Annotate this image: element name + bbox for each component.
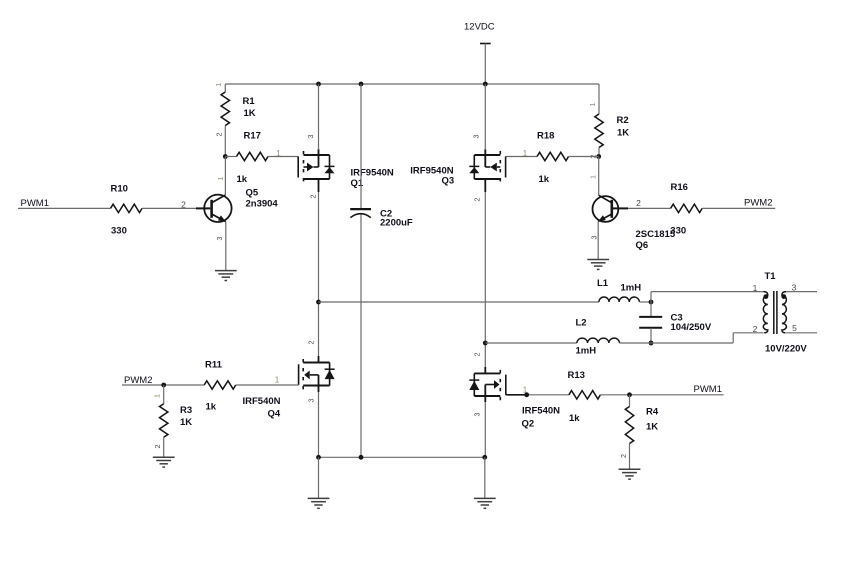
- capacitor C2: [350, 209, 371, 218]
- pin 3 of Q4: [307, 399, 316, 403]
- label R10 value 330: [111, 226, 127, 237]
- pin 2 of Q3: [473, 198, 482, 202]
- wire R3 bottom lead: [163, 437, 165, 457]
- pin 1 of R1: [214, 83, 223, 87]
- node PWM2 label (left): [124, 375, 153, 386]
- label T1: [765, 271, 777, 282]
- svg-text:12VDC: 12VDC: [464, 22, 495, 33]
- wire PWM2 net (lower left): [122, 384, 204, 386]
- label R18: [537, 131, 554, 142]
- svg-text:330: 330: [670, 225, 686, 236]
- svg-text:2: 2: [309, 195, 318, 199]
- svg-text:2: 2: [753, 324, 758, 334]
- svg-text:3: 3: [472, 135, 481, 139]
- wire L2 row to T1 pin2: [620, 333, 764, 343]
- label R17: [244, 131, 261, 142]
- label R1 value 1K: [244, 108, 256, 119]
- label R17 value 1k: [237, 174, 248, 185]
- junction output node A: [316, 300, 321, 305]
- label L2 value 1mH: [576, 346, 597, 357]
- svg-text:3: 3: [215, 237, 224, 241]
- transformer T1 secondary winding: [782, 292, 787, 333]
- label R13: [568, 370, 585, 381]
- svg-text:PWM1: PWM1: [21, 198, 50, 209]
- svg-text:2: 2: [619, 454, 628, 458]
- wire R16 to PWM2: [702, 207, 775, 209]
- label C2 value 2200uF: [380, 218, 413, 229]
- pin 1 of R11: [275, 375, 280, 385]
- svg-text:Q1: Q1: [351, 178, 364, 189]
- pin 1 of R17: [276, 148, 281, 158]
- wire Q1 drain to Q4 drain: [318, 192, 320, 356]
- pin 2 of R1: [214, 133, 223, 137]
- pin 3 of Q5: [215, 237, 224, 241]
- label IRF9540N (Q3): [410, 166, 453, 177]
- label R18 value 1k: [539, 174, 550, 185]
- svg-text:1K: 1K: [180, 417, 192, 428]
- wire Q5 collector to junction: [224, 157, 226, 196]
- node PWM1 label (left): [21, 198, 50, 209]
- svg-text:R3: R3: [180, 405, 192, 416]
- svg-text:1: 1: [276, 148, 281, 158]
- label R1: [243, 96, 256, 107]
- label R11 value 1k: [206, 402, 217, 413]
- junction 12VDC-rail: [483, 82, 488, 87]
- transistor Q3 (IRF9540N P-MOSFET): [469, 149, 505, 192]
- svg-text:1K: 1K: [646, 422, 658, 433]
- resistor R11: [204, 381, 236, 389]
- resistor R3: [160, 404, 168, 438]
- wire R17 to Q1 gate: [268, 156, 298, 158]
- junction ground rail right: [482, 455, 487, 460]
- label R16 value 330: [670, 225, 686, 236]
- svg-text:1: 1: [589, 175, 598, 179]
- pin 3 of Q2: [473, 413, 482, 417]
- wire R10 to Q5 base: [142, 207, 196, 209]
- junction rail-C2 column: [359, 82, 364, 87]
- svg-text:L2: L2: [576, 318, 587, 329]
- svg-text:2: 2: [307, 341, 316, 345]
- svg-text:1: 1: [523, 148, 528, 158]
- svg-text:Q4: Q4: [268, 409, 281, 420]
- svg-text:R1: R1: [243, 96, 256, 107]
- pin 2 of Q4: [307, 341, 316, 345]
- svg-text:T1: T1: [765, 271, 777, 282]
- resistor R4: [625, 407, 633, 444]
- svg-text:R16: R16: [671, 182, 688, 193]
- junction R2-R18-Q6 collector: [596, 154, 601, 159]
- svg-text:1k: 1k: [569, 413, 580, 424]
- svg-text:R11: R11: [205, 360, 223, 371]
- ground below Q2 column: [474, 498, 496, 508]
- junction ground rail C2: [359, 455, 364, 460]
- svg-text:Q2: Q2: [522, 419, 535, 430]
- ground below R3: [153, 457, 175, 467]
- pin 2 of Q6: [636, 198, 641, 208]
- transistor Q4 (IRF540N N-MOSFET): [299, 356, 335, 392]
- transformer T1 primary winding: [763, 292, 768, 333]
- svg-text:1: 1: [152, 394, 161, 398]
- wire Q5 emitter down: [225, 222, 227, 271]
- resistor R13: [569, 391, 600, 399]
- resistor R1 vertical leads: [224, 84, 226, 157]
- label R4: [646, 407, 659, 418]
- junction ground rail left: [316, 455, 321, 460]
- label R13 value 1k: [569, 413, 580, 424]
- svg-text:1K: 1K: [244, 108, 256, 119]
- transformer T1 secondary phase dot: [781, 294, 786, 299]
- label R2 value 1K: [617, 128, 629, 139]
- svg-text:2: 2: [473, 198, 482, 202]
- svg-text:PWM2: PWM2: [124, 375, 153, 386]
- svg-text:5: 5: [792, 323, 797, 333]
- label R10: [111, 184, 128, 195]
- node 12VDC label: [464, 22, 495, 33]
- wire R18 right lead: [569, 156, 599, 158]
- label Q4: [268, 409, 281, 420]
- pin 1 of R18: [523, 148, 528, 158]
- label R3: [180, 405, 192, 416]
- wire 12VDC power rail (top, +12V): [225, 83, 599, 85]
- ground below R4: [619, 469, 641, 479]
- wire Q4 source down: [318, 392, 320, 457]
- resistor R16: [671, 204, 702, 212]
- pin 1 of R3: [152, 394, 161, 398]
- resistor R10: [111, 204, 143, 212]
- node PWM2 label (right): [744, 198, 773, 209]
- svg-text:IRF540N: IRF540N: [522, 406, 560, 417]
- label Q2: [522, 419, 535, 430]
- svg-text:3: 3: [590, 236, 599, 240]
- svg-text:1: 1: [214, 83, 223, 87]
- wire Q6 base to R16: [628, 207, 671, 209]
- label C3: [671, 313, 683, 324]
- junction PWM2-R3: [161, 383, 166, 388]
- label R11: [205, 360, 223, 371]
- pin 2 of Q5: [181, 200, 186, 210]
- svg-text:2: 2: [153, 445, 162, 449]
- pin 1 of Q6: [589, 175, 598, 179]
- pin 2 of R2: [589, 155, 598, 159]
- wire R11 to Q4 gate: [236, 384, 299, 386]
- svg-text:R10: R10: [111, 184, 128, 195]
- resistor R18: [537, 152, 568, 160]
- svg-text:1k: 1k: [206, 402, 217, 413]
- label 2SC1815 (Q6): [636, 229, 676, 240]
- pin 1 of R2: [588, 103, 597, 107]
- node PWM1 label (right): [694, 384, 723, 395]
- label T1 value 10V/220V: [765, 344, 807, 355]
- svg-text:PWM2: PWM2: [744, 198, 773, 209]
- svg-text:104/250V: 104/250V: [671, 322, 712, 333]
- label Q5: [246, 188, 259, 199]
- pin 3 of Q6: [590, 236, 599, 240]
- label Q6: [636, 240, 649, 251]
- pin 2 of R4: [619, 454, 628, 458]
- svg-text:1: 1: [753, 283, 758, 293]
- label L2: [576, 318, 587, 329]
- pin 2 of R3: [153, 445, 162, 449]
- label R16: [671, 182, 688, 193]
- wire Q3 gate to R18: [506, 156, 537, 158]
- power symbol 12VDC: [480, 44, 491, 85]
- wire R17 left lead: [225, 156, 236, 158]
- junction rail-Q1 drain column: [316, 82, 321, 87]
- wire Q6 emitter down: [597, 221, 599, 259]
- svg-text:IRF9540N: IRF9540N: [351, 168, 394, 179]
- pin 1 of Q5: [216, 177, 225, 181]
- wire output row to L2: [485, 342, 577, 344]
- junction C3-L2 row: [649, 341, 654, 346]
- svg-text:10V/220V: 10V/220V: [765, 344, 807, 355]
- svg-text:R17: R17: [244, 131, 261, 142]
- svg-text:1: 1: [588, 103, 597, 107]
- junction Q2 gate node: [524, 392, 529, 397]
- svg-text:3: 3: [306, 135, 315, 139]
- svg-text:1mH: 1mH: [576, 346, 597, 357]
- wire ground stem right: [484, 457, 486, 498]
- pin 2 of Q2: [473, 353, 482, 357]
- pin 3 of Q3: [472, 135, 481, 139]
- svg-text:PWM1: PWM1: [694, 384, 723, 395]
- svg-text:2: 2: [473, 353, 482, 357]
- label C2: [380, 209, 392, 220]
- wire T1 pin5 output: [786, 332, 817, 334]
- svg-text:Q6: Q6: [636, 240, 649, 251]
- pin 2 of Q1: [309, 195, 318, 199]
- svg-text:1mH: 1mH: [621, 283, 642, 294]
- wire Q6 collector to junction: [598, 157, 600, 196]
- pin 1 of T1: [753, 283, 758, 293]
- label C3 value 104/250V: [671, 322, 712, 333]
- wire R4 top lead: [629, 395, 631, 407]
- svg-text:1k: 1k: [237, 174, 248, 185]
- transformer T1 primary phase dot: [764, 294, 769, 299]
- transformer T1 core: [774, 291, 777, 334]
- svg-text:2200uF: 2200uF: [380, 218, 413, 229]
- resistor R17: [237, 152, 269, 160]
- svg-text:R18: R18: [537, 131, 554, 142]
- wire R13 to PWM1: [600, 394, 723, 396]
- wire R4 bottom lead: [629, 444, 631, 470]
- svg-text:2: 2: [181, 200, 186, 210]
- wire T1 pin3 output: [786, 291, 817, 293]
- svg-text:R4: R4: [646, 407, 659, 418]
- inductor L1: [599, 297, 639, 302]
- wire Q2 source down: [484, 402, 486, 457]
- wire Q2 gate to R13: [506, 394, 569, 396]
- pin 1 of Q2: [523, 385, 528, 395]
- transistor Q1 (IRF9540N P-MOSFET): [298, 149, 334, 192]
- svg-text:1: 1: [216, 177, 225, 181]
- ground below Q6: [587, 260, 609, 270]
- wire Q3 drain to Q2 drain: [484, 192, 486, 367]
- label Q1: [351, 178, 364, 189]
- wire output row to L1: [319, 301, 599, 303]
- label IRF9540N (Q1): [351, 168, 394, 179]
- wire ground stem left: [318, 457, 320, 498]
- wire L1 to C3 junction: [639, 301, 651, 303]
- svg-text:2n3904: 2n3904: [246, 199, 279, 210]
- transistor Q5 (2n3904 NPN): [196, 195, 232, 222]
- ground below Q4 column: [308, 498, 330, 508]
- svg-text:L1: L1: [597, 278, 609, 289]
- wire C3 bottom lead: [650, 328, 652, 343]
- wire C2 bottom lead: [360, 215, 362, 458]
- junction R1-R17-Q5 collector: [223, 154, 228, 159]
- svg-text:1: 1: [275, 375, 280, 385]
- pin 3 of Q1: [306, 135, 315, 139]
- label IRF540N (Q4): [243, 396, 281, 407]
- label Q5 value 2n3904: [246, 199, 279, 210]
- pin 3 of T1: [792, 283, 797, 293]
- junction R13-R4: [627, 392, 632, 397]
- resistor R1: [221, 92, 229, 125]
- svg-text:2: 2: [214, 133, 223, 137]
- svg-text:330: 330: [111, 226, 127, 237]
- transistor Q2 (IRF540N N-MOSFET): [469, 367, 506, 402]
- svg-text:3: 3: [473, 413, 482, 417]
- svg-text:2: 2: [636, 198, 641, 208]
- junction L1-C3: [649, 300, 654, 305]
- wire rail right corner to R2: [598, 84, 600, 114]
- svg-text:3: 3: [307, 399, 316, 403]
- transistor Q6 (2SC1815 NPN): [593, 195, 629, 222]
- pin 5 of T1: [792, 323, 797, 333]
- label R3 value 1K: [180, 417, 192, 428]
- svg-text:R2: R2: [617, 115, 629, 126]
- ground below Q5: [215, 271, 237, 281]
- svg-text:Q3: Q3: [442, 176, 455, 187]
- label L1: [597, 278, 609, 289]
- svg-text:IRF540N: IRF540N: [243, 396, 281, 407]
- svg-text:1K: 1K: [617, 128, 629, 139]
- label R2: [617, 115, 629, 126]
- resistor R2: [595, 114, 603, 148]
- wire R3 top lead: [163, 385, 165, 404]
- wire Q1 drain pin3 from rail: [318, 84, 320, 150]
- svg-text:1k: 1k: [539, 174, 550, 185]
- svg-text:1: 1: [523, 385, 528, 395]
- label Q3: [442, 176, 455, 187]
- pin 2 of T1: [753, 324, 758, 334]
- svg-text:Q5: Q5: [246, 188, 259, 199]
- svg-text:R13: R13: [568, 370, 585, 381]
- inductor L2: [577, 338, 620, 343]
- wire C2 top lead: [360, 84, 362, 208]
- label IRF540N (Q2): [522, 406, 560, 417]
- junction output node B: [483, 341, 488, 346]
- wire ground rail (bottom): [319, 456, 485, 458]
- wire R2 bottom lead: [598, 148, 600, 157]
- label R4 value 1K: [646, 422, 658, 433]
- wire C3 top lead: [650, 302, 652, 316]
- wire Q3 source pin3 from rail: [484, 84, 486, 150]
- wire PWM1 net: [18, 207, 111, 209]
- wire C3 junction to T1 pin1: [651, 292, 764, 302]
- label L1 value 1mH: [621, 283, 642, 294]
- capacitor C3: [639, 317, 662, 328]
